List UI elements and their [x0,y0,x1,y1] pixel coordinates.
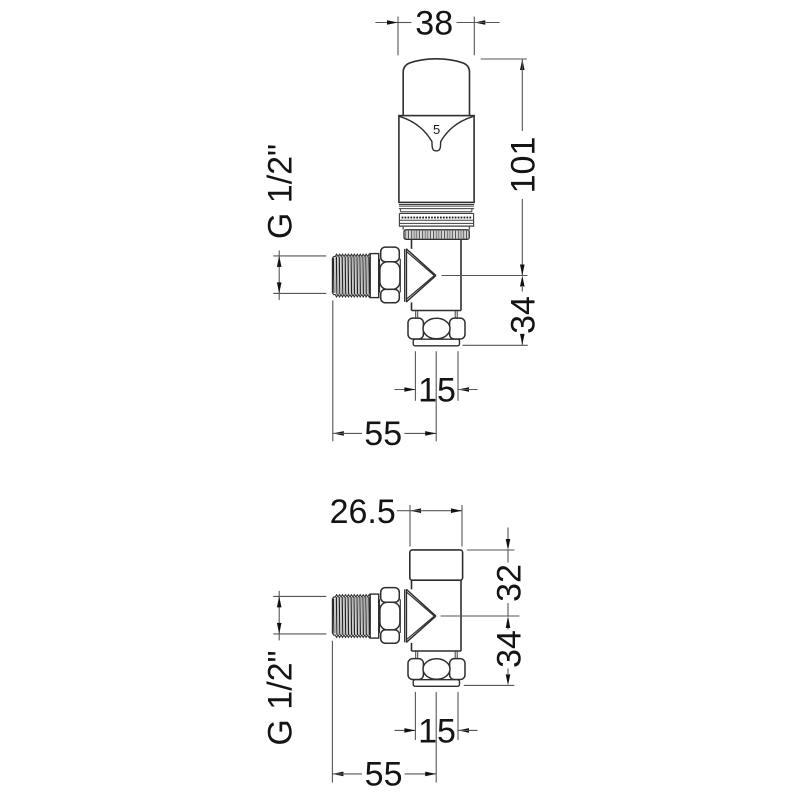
svg-text:5: 5 [433,122,440,137]
svg-text:G 1/2": G 1/2" [262,650,300,745]
top drawing: conical valve seat (pointing right) [405,249,436,303]
bottom drawing: hexagonal valve-body nut (side view) [380,588,401,644]
svg-text:26.5: 26.5 [330,493,396,531]
svg-text:55: 55 [364,415,402,453]
bottom drawing: G 1/2 thread diameter dimension lines and arrows [273,591,326,641]
svg-text:101: 101 [505,137,543,194]
dimension 55 extension lines (bottom drawing) [332,641,436,783]
valve body (bottom drawing) [412,580,462,651]
top drawing: hexagonal valve-body nut (side view) [380,247,401,303]
svg-text:34: 34 [505,296,543,334]
dimension 55 line and arrows (bottom drawing) [332,772,436,777]
dimension 34 bottom extension line (top drawing) [463,344,528,346]
knurled locking ring [404,230,469,240]
top drawing: male threaded tail G 1/2 [332,254,370,297]
head collar ribbed rings [399,205,474,227]
cap top extension line (bottom drawing) [467,549,515,551]
dimension 15 extension lines (top drawing) [415,351,458,401]
centerline extension (top drawing) [442,275,528,277]
bottom drawing: compression olive stubs [416,651,458,658]
bottom drawing: union tail flange [413,680,459,687]
collar neck [403,226,469,230]
dimension 55 extension lines (top drawing) [333,300,436,441]
dimension 26.5 extension lines [410,505,462,547]
lockshield cap [410,550,463,580]
svg-text:38: 38 [415,5,453,43]
dimension 15 line and arrows (top drawing) [395,387,478,392]
dimension 38 extension lines [398,17,474,56]
dimension 34 line and arrows (top drawing) [520,276,525,345]
dimension 55 line and arrows (top drawing) [333,431,436,436]
thermostatic head dome cap [403,59,469,116]
svg-text:G 1/2": G 1/2" [262,144,300,239]
svg-text:15: 15 [418,712,456,750]
dimension 15 extension lines (bottom drawing) [415,692,458,740]
svg-text:34: 34 [490,630,528,668]
dimension 34 bottom extension line (bottom drawing) [464,684,515,686]
dimension 101 top extension line [481,58,527,60]
top drawing: compression olive stubs [416,311,458,318]
bottom drawing: male threaded tail G 1/2 [332,595,370,638]
bottom drawing: compression union nut (bottom outlet) [408,659,465,680]
dimension 101 line and arrows [520,59,525,276]
dimension 26.5 line and arrows [397,508,462,513]
svg-text:55: 55 [365,756,403,794]
thermostatic head body [399,116,474,203]
top drawing: compression union nut (bottom outlet) [408,318,465,339]
svg-text:15: 15 [418,372,456,410]
top drawing: G 1/2 thread diameter dimension lines and arrows [273,250,326,300]
bottom drawing: conical valve seat (pointing right) [405,589,436,643]
top drawing: union tail flange [413,339,459,346]
svg-text:32: 32 [490,564,528,602]
centerline extension (bottom drawing) [441,615,520,617]
dimension 38 line and arrows [375,20,499,25]
dimension 15 line and arrows (bottom drawing) [395,728,478,733]
bottom drawing: collar between thread and nut [370,594,379,638]
head V-notch curve [400,116,474,150]
dimension 32 line and arrows [506,528,511,617]
valve body (top drawing) [412,239,462,310]
top drawing: collar between thread and nut [370,254,379,298]
head collar knurled dot band [402,217,472,219]
dimension 34 line and arrows (bottom drawing) [506,616,511,685]
